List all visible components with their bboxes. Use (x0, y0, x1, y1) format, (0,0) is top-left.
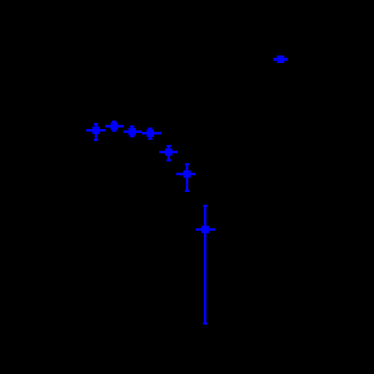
P2 y error bar (113, 122, 116, 131)
P8 marker (277, 56, 285, 64)
P4 marker (147, 130, 154, 137)
data point P5 (159, 146, 178, 160)
P5 marker (165, 148, 172, 155)
P3 x error bar (123, 130, 141, 133)
P1 y error bar (95, 124, 98, 140)
P4 x error bar (142, 132, 161, 135)
P6 bottom cap (185, 190, 189, 192)
P3 y error bar (131, 127, 134, 137)
P5 y error bar (167, 146, 170, 160)
data point P6 (176, 164, 195, 191)
P6 x error bar (176, 173, 195, 176)
P6 marker (183, 170, 190, 177)
P4 y error bar (149, 129, 152, 139)
P1 marker (92, 127, 99, 134)
P1 x error bar (86, 129, 105, 132)
P5 bottom cap (167, 159, 171, 161)
P7 marker (202, 226, 209, 233)
P8 x error bar (273, 58, 288, 61)
P4 top cap (148, 128, 152, 130)
P2 top cap (112, 121, 116, 123)
P6 top cap (185, 163, 189, 165)
P2 bottom cap (112, 130, 116, 132)
P3 marker (129, 128, 136, 135)
data point P3 (123, 127, 141, 137)
data point P8 (273, 56, 288, 64)
P3 bottom cap (130, 135, 134, 137)
data point P7 (196, 206, 216, 324)
P6 y error bar (186, 164, 189, 191)
P7 top cap (203, 205, 207, 207)
P1 bottom cap (94, 139, 98, 141)
data point P1 (86, 124, 105, 140)
P7 bottom cap (203, 322, 207, 324)
data point P4 (142, 129, 161, 139)
P1 top cap (94, 123, 98, 125)
P7 y error bar (204, 206, 206, 324)
P2 marker (111, 123, 118, 130)
data point P2 (105, 122, 124, 131)
P5 x error bar (159, 151, 178, 154)
P3 top cap (130, 125, 134, 127)
P7 x error bar (196, 228, 216, 231)
P2 x error bar (105, 125, 124, 128)
P4 bottom cap (148, 138, 152, 140)
P5 top cap (167, 145, 171, 147)
